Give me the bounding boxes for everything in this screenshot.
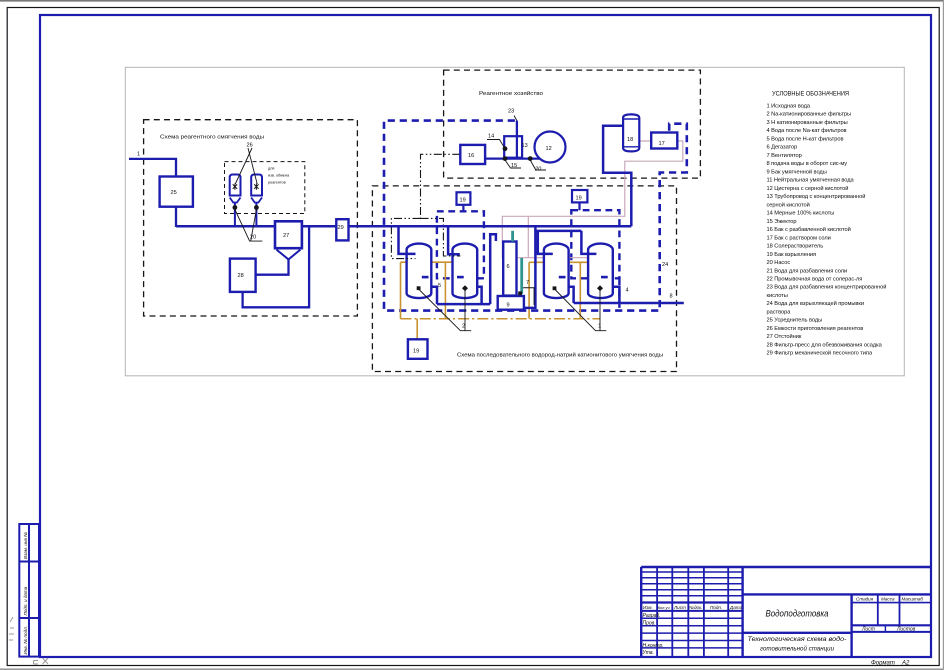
svg-text:23: 23	[508, 109, 514, 115]
svg-text:2 Na-катионированные фильтры: 2 Na-катионированные фильтры	[767, 112, 852, 118]
valve dot 14	[503, 146, 508, 151]
svg-text:20 Насос: 20 Насос	[767, 260, 791, 266]
pipe tank4 outlet	[613, 287, 620, 303]
leader 1 from tank4	[599, 291, 601, 331]
agitator mark vessel A	[233, 183, 237, 189]
pipe averager outlet	[175, 206, 177, 228]
svg-text:9: 9	[507, 303, 510, 309]
svg-text:Н.контр.: Н.контр.	[643, 643, 664, 649]
backwash tank 19b	[572, 190, 587, 202]
scan edge bottom	[0, 668, 944, 670]
orange line right vertical	[528, 262, 530, 318]
svg-text:18 Солерастворитель: 18 Солерастворитель	[767, 244, 824, 250]
inner dashed box: reagent preparation vessels	[225, 162, 305, 214]
teal bar fan side	[520, 258, 523, 294]
section box: reagent facility (top)	[444, 70, 701, 178]
valve dot vessel A	[233, 205, 238, 210]
pipe tank3 inlet	[538, 231, 553, 254]
orange stem to backwash tank 19	[416, 319, 418, 340]
pipe tank3 outlet	[569, 287, 574, 303]
svg-text:Подп.: Подп.	[710, 605, 722, 610]
drain mark tank4	[597, 285, 603, 291]
stem 19a	[462, 205, 464, 212]
svg-text:29: 29	[338, 225, 344, 231]
title block divider main	[741, 567, 743, 657]
svg-text:25 Усреднитель воды: 25 Усреднитель воды	[767, 318, 823, 324]
svg-text:6: 6	[507, 264, 510, 270]
svg-text:12 Цистерна с серной кислотой: 12 Цистерна с серной кислотой	[767, 185, 849, 192]
level dash tank2	[457, 276, 464, 279]
valve dot vessel B	[254, 205, 259, 210]
svg-text:Дата: Дата	[729, 605, 743, 610]
svg-text:27 Отстойник: 27 Отстойник	[767, 333, 802, 340]
leader 2 from tank1	[420, 290, 472, 331]
pipe riser to degasser	[490, 234, 496, 304]
svg-text:УСЛОВНЫЕ ОБОЗНАЧЕНИЯ: УСЛОВНЫЕ ОБОЗНАЧЕНИЯ	[772, 91, 849, 98]
pipe tank1 inlet	[399, 226, 416, 254]
svg-text:1: 1	[137, 152, 140, 158]
svg-text:Листов: Листов	[896, 627, 916, 633]
bracket label 7	[523, 288, 534, 305]
box 16 diluted acid tank	[460, 145, 485, 164]
svg-text:19: 19	[460, 198, 466, 204]
svg-text:26 Емкости приготовления реаге: 26 Емкости приготовления реагентов	[767, 326, 864, 332]
svg-text:Реагентное хозяйство: Реагентное хозяйство	[479, 90, 543, 97]
leader 26 to vessel B	[235, 148, 252, 184]
svg-text:20: 20	[250, 235, 256, 241]
leader 23	[514, 116, 517, 121]
svg-text:5: 5	[438, 283, 441, 289]
svg-text:14: 14	[488, 134, 494, 140]
svg-text:Подп. и дата: Подп. и дата	[23, 586, 28, 615]
drain mark tank1	[417, 286, 421, 290]
legend items	[767, 104, 887, 357]
pipe settler underflow	[256, 259, 289, 275]
svg-text:А2: А2	[901, 660, 910, 666]
svg-text:3 Н катионированные фильтры: 3 Н катионированные фильтры	[767, 120, 848, 126]
scan edge right	[942, 0, 944, 670]
svg-text:24: 24	[662, 262, 668, 268]
leader 20 reagent	[530, 160, 546, 170]
tank 2 Na-cation filter A	[407, 244, 432, 299]
pipe dosing vessel A drop	[234, 201, 236, 226]
salt dissolver 18	[623, 114, 639, 151]
orange line between tanks 1-2	[444, 262, 446, 319]
teal bar fan top	[511, 231, 514, 242]
backwash tank 19c	[408, 339, 428, 359]
svg-text:21 Вода для разбавления соли: 21 Вода для разбавления соли	[767, 268, 848, 274]
leader 15	[505, 160, 521, 168]
svg-text:Разраб.: Разраб.	[643, 613, 661, 619]
svg-text:для: для	[268, 167, 275, 171]
orange line left vertical	[400, 262, 402, 319]
svg-text:1 Исходная вода: 1 Исходная вода	[767, 104, 811, 110]
pipe softened collector 1-2	[437, 303, 490, 306]
svg-text:19: 19	[576, 196, 582, 202]
leader 14	[487, 140, 505, 149]
svg-text:Масштаб: Масштаб	[902, 597, 924, 602]
svg-text:6 Дегазатор: 6 Дегазатор	[767, 145, 798, 151]
svg-text:Утв.: Утв.	[643, 650, 654, 656]
svg-text:4: 4	[626, 288, 629, 294]
strip row 2	[19, 617, 39, 619]
svg-text:25: 25	[171, 190, 177, 196]
svg-text:18: 18	[627, 137, 633, 143]
strip outer	[19, 524, 39, 657]
orange dash-dot collector line	[401, 318, 601, 320]
pipe acid dilution water 23	[516, 121, 518, 159]
svg-text:Технологическая схема водо-: Технологическая схема водо-	[748, 635, 847, 643]
svg-text:11 Нейтральная умягченная вода: 11 Нейтральная умягченная вода	[767, 177, 855, 184]
svg-text:13: 13	[522, 143, 528, 149]
cistern 12 sulfuric acid	[535, 132, 566, 163]
svg-text:20: 20	[534, 167, 542, 173]
svg-text:Инв. № подл.: Инв. № подл.	[23, 626, 28, 655]
strip row 1	[19, 561, 39, 563]
svg-text:16 Бак с разбавленной кислотой: 16 Бак с разбавленной кислотой	[767, 226, 851, 233]
svg-text:№док.: №док.	[689, 605, 703, 610]
ejector 15	[504, 136, 522, 158]
blue dashed box around tank 4	[571, 210, 619, 278]
svg-text:29 Фильтр механической песочно: 29 Фильтр механической песочного типа	[767, 350, 873, 357]
svg-text:12: 12	[546, 146, 552, 152]
leader 20 from vessel A	[235, 210, 262, 242]
diagram gray boundary box	[125, 67, 904, 376]
svg-text:5 Вода после Н-кат фильтров: 5 Вода после Н-кат фильтров	[767, 136, 844, 142]
svg-text:готовительной станции: готовительной станции	[760, 645, 834, 653]
svg-text:7 Вентилятор: 7 Вентилятор	[767, 153, 802, 159]
pink wash-water line from salt dissolver	[502, 141, 683, 258]
box 28 filter-press	[230, 259, 256, 292]
box 29 mechanical filter	[336, 219, 348, 240]
svg-text:8 подача воды в оборот сис-му: 8 подача воды в оборот сис-му	[767, 161, 848, 167]
agitator mark vessel B	[254, 183, 258, 189]
pipe riser to salt dissolver	[603, 126, 631, 227]
box 27 settler with funnel	[275, 221, 302, 259]
svg-text:23 Вода для разбавления конце: 23 Вода для разбавления концентрированно…	[767, 284, 887, 291]
pipe H-filters feed	[535, 230, 581, 233]
svg-text:7: 7	[526, 280, 529, 286]
pipe raw water inlet	[129, 159, 176, 178]
svg-text:Схема последовательного водоро: Схема последовательного водород-натрий к…	[457, 352, 663, 359]
pipe main header	[176, 225, 631, 228]
title block top edge	[641, 566, 931, 568]
right part dividers	[743, 593, 931, 595]
svg-text:14 Мерные 100% кислоты: 14 Мерные 100% кислоты	[767, 211, 835, 217]
pipe filter-press return loop	[243, 226, 310, 307]
svg-text:2: 2	[462, 324, 465, 330]
acid branch to tank 2	[421, 218, 461, 256]
orange line between tanks 3-4	[579, 262, 581, 319]
svg-text:4 Вода после Na-кат фильтров: 4 Вода после Na-кат фильтров	[767, 128, 847, 134]
pipe ejector line	[485, 157, 547, 159]
tank 3 H-cation filter B	[588, 244, 613, 299]
svg-text:15: 15	[511, 163, 517, 169]
svg-text:Водоподготовка: Водоподготовка	[766, 609, 829, 620]
blue dashed boundary path (cationite unit)	[384, 121, 687, 311]
black square at fan bottom	[518, 291, 522, 295]
pipe through ejector	[516, 136, 518, 158]
level dash tank1	[422, 276, 429, 279]
leader 20 from vessel B	[251, 210, 257, 242]
svg-text:19: 19	[413, 349, 419, 355]
svg-text:Взам. инв №: Взам. инв №	[23, 532, 28, 559]
svg-text:22 Промывочная вода от солерас: 22 Промывочная вода от солерас-ля	[767, 277, 863, 283]
orange line top horizontal tanks 3-4	[529, 261, 595, 263]
svg-text:13 Трубопровод с концентрирова: 13 Трубопровод с концентрированной	[767, 193, 866, 200]
svg-text:Масса: Масса	[881, 597, 895, 602]
svg-text:Кол.уч: Кол.уч	[658, 605, 670, 610]
orange line top horizontal tanks 1-2	[401, 261, 463, 263]
svg-text:9 Бак умягченной воды: 9 Бак умягченной воды	[767, 168, 827, 175]
svg-text:28 Фильтр-пресс для обезвожива: 28 Фильтр-пресс для обезвоживания осадка	[767, 342, 883, 348]
section box: reagent softening scheme (left)	[144, 120, 358, 316]
pipe dosing vessel B drop	[255, 201, 257, 226]
svg-text:Изм.: Изм.	[643, 605, 653, 610]
svg-text:Лист: Лист	[861, 627, 875, 633]
svg-text:17: 17	[659, 141, 665, 147]
svg-text:реагентов: реагентов	[268, 181, 286, 185]
dosing vessel A	[230, 175, 241, 203]
leader 1 from tank3	[556, 290, 607, 331]
dosing vessel B	[251, 175, 262, 203]
drain mark tank3	[553, 286, 557, 290]
tiny note in prep box	[268, 167, 290, 185]
svg-text:28: 28	[238, 273, 244, 279]
level dash tank4	[601, 276, 608, 279]
svg-text:Стадия: Стадия	[856, 597, 874, 602]
row lines left table	[641, 571, 742, 573]
svg-text:Схема реагентного смягчения в: Схема реагентного смягчения воды	[160, 135, 264, 141]
box 17 salt solution tank	[651, 133, 677, 149]
svg-text:17 Бак с раствором соли: 17 Бак с раствором соли	[767, 235, 831, 241]
tank 3 H-cation filter A	[544, 244, 569, 298]
svg-text:8: 8	[670, 294, 673, 300]
svg-text:24 Вода для взрыхляющей промыв: 24 Вода для взрыхляющей промывки	[767, 300, 864, 307]
svg-text:Формат: Формат	[871, 660, 895, 666]
scan marks bottom left	[9, 617, 48, 664]
svg-text:1: 1	[598, 324, 601, 330]
acid branch to tank 1	[391, 218, 420, 258]
svg-text:Лист: Лист	[673, 605, 686, 610]
strip divider vertical	[28, 524, 30, 657]
svg-text:16: 16	[468, 153, 474, 159]
pipe tank4 inlet	[581, 231, 596, 254]
svg-text:27: 27	[283, 233, 289, 239]
stem 19b	[578, 202, 580, 210]
svg-text:15 Эжектор: 15 Эжектор	[767, 219, 797, 225]
pipe treated water to circulation 8	[574, 302, 684, 305]
svg-text:26: 26	[247, 143, 253, 149]
svg-text:19 Бак взрыхления: 19 Бак взрыхления	[767, 252, 817, 258]
degassed water tank 9	[498, 296, 524, 310]
svg-text:раствора: раствора	[767, 310, 792, 316]
svg-text:серной кислотой: серной кислотой	[767, 201, 810, 208]
pipe tank2 inlet	[448, 226, 460, 254]
pipe degasser tank outlet	[524, 226, 536, 308]
tank 2 Na-cation filter B	[453, 244, 478, 299]
valve dot 15	[503, 156, 508, 161]
valve dot 20	[528, 156, 533, 161]
svg-text:кислоты: кислоты	[767, 293, 788, 299]
column lines left table	[656, 567, 658, 657]
box 25 water averager	[160, 177, 193, 207]
section box: Na-H cation softening scheme (center, black dashed)	[372, 186, 676, 372]
svg-text:изв. обмена: изв. обмена	[268, 174, 290, 178]
title block texts	[643, 597, 924, 657]
level dash tank3	[559, 276, 566, 279]
blue dashed box around tank 2	[437, 211, 484, 278]
backwash tank 19a	[457, 192, 471, 205]
leader 26 to vessel A	[248, 148, 257, 184]
pipe tank1 outlet	[431, 287, 437, 304]
leader 2 from tank2	[464, 291, 466, 331]
pink branch	[527, 216, 529, 257]
degasser column 6	[503, 242, 516, 296]
svg-text:Пров.: Пров.	[643, 620, 656, 626]
blue dashed drop from tank4 box to bottom edge	[618, 278, 620, 310]
acid feeder line from tank 16	[421, 154, 461, 218]
scan edge top	[0, 0, 944, 2]
pipe tank2 outlet	[477, 287, 481, 304]
title block left edge	[640, 567, 642, 657]
drain mark tank2	[462, 285, 468, 291]
